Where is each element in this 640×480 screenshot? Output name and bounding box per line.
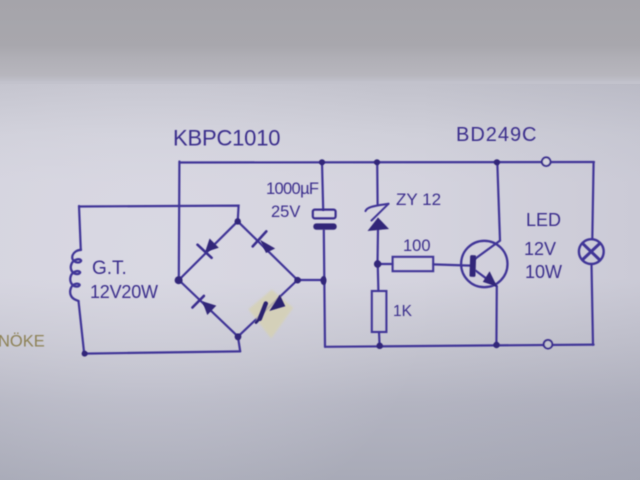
diode D1 triangle (upper-left edge) <box>205 239 219 253</box>
wire: rail right corner down to lamp <box>592 162 593 239</box>
wire: bottom AC lead to bridge bottom node <box>84 351 240 353</box>
wire: bottom rail <box>325 345 594 347</box>
terminal: output + <box>542 157 551 166</box>
svg-text:10W: 10W <box>525 262 562 282</box>
zener diode ZY12 bar <box>366 204 389 211</box>
svg-text:NÖKE: NÖKE <box>0 333 45 351</box>
wire: left drop from rail to bridge left node <box>178 162 181 281</box>
wire: transformer left vertical upper <box>79 206 81 250</box>
wire: R1 to transistor base <box>433 264 471 265</box>
transistor Q1 BD249C circle <box>461 241 507 287</box>
wire: emitter to bottom rail <box>495 286 498 345</box>
diode D3 triangle (lower-left edge) <box>202 301 216 315</box>
node dot: zener/R1/R2 junction <box>374 260 381 267</box>
node dot: zener branch top <box>374 159 380 165</box>
node dot: bottom-left corner <box>82 351 88 357</box>
svg-text:1K: 1K <box>393 303 413 320</box>
svg-text:1000µF: 1000µF <box>266 180 319 198</box>
zener diode ZY12 z-diagonal <box>372 204 389 221</box>
diode D4 bold cathode bar <box>260 304 266 319</box>
lamp LA1 X stroke 1 <box>583 244 600 260</box>
node dot: collector at top rail <box>494 159 500 165</box>
wire: top positive rail <box>180 161 595 164</box>
svg-text:100: 100 <box>403 237 431 255</box>
diode D3 cathode bar <box>192 296 204 308</box>
svg-text:LED: LED <box>526 210 561 230</box>
wire: stub up to bridge bottom node <box>238 337 240 351</box>
transformer T1 coil G.T. <box>70 250 81 301</box>
svg-text:G.T.: G.T. <box>92 258 127 279</box>
bridge edge top-right <box>238 221 298 280</box>
gray table band at top <box>0 0 640 81</box>
wire: filter branch lower (cap to bottom rail) <box>324 230 325 347</box>
wire: node down to R2 <box>377 267 380 291</box>
junction blob: bridge output to cap branch <box>321 276 327 285</box>
bridge edge bottom-left <box>179 280 238 337</box>
node dot: bridge right <box>294 277 301 284</box>
node dot: bridge left <box>175 276 183 284</box>
diode D2 triangle (upper-right edge) <box>260 240 275 253</box>
transistor Q1 emitter arrowhead <box>483 271 497 287</box>
svg-text:12V20W: 12V20W <box>90 282 158 302</box>
diode D4 bold stub <box>256 318 261 323</box>
wire: bridge right node to filter branch <box>298 279 324 281</box>
wire: zener anode down to node <box>376 230 379 265</box>
node dot: emitter at bottom rail <box>493 342 499 348</box>
svg-text:25V: 25V <box>271 203 300 221</box>
node dot: cap branch top <box>319 159 325 165</box>
node dot: bridge top <box>235 218 241 224</box>
terminal: output - <box>544 340 553 349</box>
zener diode ZY12 triangle <box>368 218 390 232</box>
svg-text:KBPC1010: KBPC1010 <box>173 126 281 151</box>
wire: transformer top lead to bridge top node <box>79 206 239 222</box>
capacitor C1 bottom plate (solid) <box>313 223 336 229</box>
lamp LA1 X stroke 2 <box>583 244 600 260</box>
diode D1 cathode bar <box>198 245 212 258</box>
svg-text:ZY 12: ZY 12 <box>396 190 441 209</box>
resistor R2 1K body <box>372 291 387 332</box>
wire: filter branch upper (rail to cap) <box>322 162 323 210</box>
transistor Q1 base bar <box>469 255 476 277</box>
svg-text:BD249C: BD249C <box>456 124 537 146</box>
resistor R1 100 body <box>393 257 434 271</box>
node dot: R2 at bottom rail <box>377 343 383 349</box>
capacitor C1 top plate (hollow) <box>313 210 336 219</box>
transistor Q1 emitter diagonal <box>476 271 497 286</box>
wire: R2 to bottom rail <box>378 332 381 346</box>
svg-text:12V: 12V <box>524 239 556 259</box>
wire: collector to top rail <box>497 162 500 240</box>
tape patch over lower-right diode <box>249 290 294 339</box>
diode D4 bold triangle (on tape) <box>269 295 285 311</box>
wire: zener branch upper <box>376 162 379 204</box>
wire: node to R1 <box>378 263 393 265</box>
bridge edge top-left <box>179 221 238 280</box>
wire: transformer left vertical lower <box>79 301 85 354</box>
transistor Q1 collector diagonal <box>476 241 501 259</box>
diode D2 cathode bar <box>253 231 267 246</box>
wire: lamp bottom to bottom rail <box>592 264 594 345</box>
node dot: bridge bottom <box>235 333 242 340</box>
bridge edge bottom-right (under tape) <box>238 280 298 337</box>
lamp LA1 circle <box>579 239 604 264</box>
